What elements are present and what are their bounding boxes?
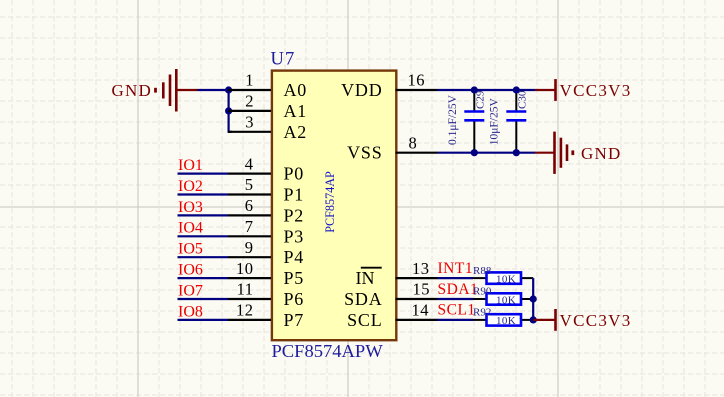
resistor R92 — [473, 314, 533, 325]
svg-text:15: 15 — [413, 280, 431, 299]
pin 3 (A2) — [228, 113, 307, 142]
svg-text:R88: R88 — [473, 265, 492, 277]
power port VCC3V3 top — [535, 79, 556, 101]
svg-text:VCC3V3: VCC3V3 — [560, 311, 632, 330]
wire IO3 — [178, 214, 229, 216]
pin 2 (A1) — [228, 92, 307, 121]
svg-text:GND: GND — [112, 81, 152, 100]
svg-text:IO1: IO1 — [178, 157, 203, 174]
pin 11 (P6) — [228, 280, 304, 309]
ground symbol GND left — [156, 69, 198, 112]
svg-text:0.1μF/25V: 0.1μF/25V — [447, 94, 459, 145]
wire IO6 — [178, 277, 229, 279]
junction at pin 2 — [225, 107, 232, 114]
wire IO8 — [178, 319, 229, 321]
svg-text:16: 16 — [408, 71, 426, 90]
svg-text:PCF8574APW: PCF8574APW — [272, 341, 384, 361]
svg-text:10: 10 — [236, 259, 254, 278]
svg-text:13: 13 — [412, 259, 430, 278]
svg-text:SCL: SCL — [347, 310, 382, 330]
junction C29 bottom — [471, 149, 478, 156]
svg-text:10K: 10K — [496, 294, 516, 306]
svg-text:VDD: VDD — [341, 80, 382, 100]
svg-text:11: 11 — [237, 280, 254, 299]
svg-text:IO3: IO3 — [178, 199, 203, 216]
svg-text:1: 1 — [245, 71, 254, 90]
wire VSS to GND — [438, 152, 536, 154]
svg-text:10K: 10K — [496, 273, 516, 285]
pin 9 (P4) — [228, 238, 304, 267]
pin 6 (P2) — [228, 196, 304, 225]
svg-text:A0: A0 — [284, 80, 308, 100]
svg-text:10μF/25V: 10μF/25V — [489, 98, 501, 146]
pin 5 (P1) — [228, 175, 304, 204]
svg-text:8: 8 — [409, 133, 418, 152]
pin 15 (SDA) — [344, 280, 437, 309]
svg-text:P7: P7 — [284, 310, 305, 330]
svg-text:U7: U7 — [271, 50, 296, 70]
junction C29 top — [471, 86, 478, 93]
svg-text:R92: R92 — [473, 307, 491, 319]
svg-text:SCL1: SCL1 — [438, 302, 476, 319]
svg-text:10K: 10K — [496, 315, 516, 327]
wire SDA1 — [438, 298, 474, 300]
junction C30 bottom — [513, 149, 520, 156]
wire SCL1 — [438, 319, 474, 321]
svg-text:PCF8574AP: PCF8574AP — [323, 171, 337, 233]
svg-text:6: 6 — [245, 196, 254, 215]
svg-text:IO2: IO2 — [178, 178, 203, 195]
junction bus at SCL1 — [530, 316, 537, 323]
svg-text:3: 3 — [245, 113, 254, 132]
svg-text:VCC3V3: VCC3V3 — [560, 81, 632, 100]
wire GND to pin 1 — [198, 89, 233, 91]
wire IO4 — [178, 235, 229, 237]
junction at pin 1 — [225, 86, 232, 93]
svg-text:R90: R90 — [473, 286, 492, 298]
svg-text:IO7: IO7 — [178, 282, 203, 299]
svg-text:IO8: IO8 — [178, 303, 203, 320]
junction bus at SDA1 — [530, 295, 537, 302]
svg-text:P2: P2 — [284, 205, 305, 225]
svg-text:P0: P0 — [284, 164, 305, 184]
pin 7 (P3) — [228, 217, 304, 246]
svg-text:IO6: IO6 — [178, 262, 203, 279]
capacitor C30 — [506, 90, 526, 153]
pin 1 (A0) — [228, 71, 307, 100]
svg-text:14: 14 — [412, 301, 430, 320]
pin 8 (VSS) — [347, 133, 437, 162]
svg-text:4: 4 — [245, 154, 254, 173]
svg-text:A2: A2 — [284, 122, 308, 142]
wire stub pin 2 — [229, 110, 232, 112]
pin 4 (P0) — [228, 154, 304, 183]
svg-text:2: 2 — [245, 92, 254, 111]
svg-text:P3: P3 — [284, 226, 305, 246]
svg-text:9: 9 — [245, 238, 254, 257]
svg-text:7: 7 — [245, 217, 254, 236]
wire IO5 — [178, 256, 229, 258]
wire IO7 — [178, 298, 229, 300]
wire IO1 — [178, 173, 229, 175]
ground symbol GND right — [535, 132, 573, 174]
svg-text:P1: P1 — [284, 185, 305, 205]
svg-text:IO4: IO4 — [178, 220, 203, 237]
wire IO2 — [178, 193, 229, 195]
wire vertical to A1/A2 — [229, 90, 232, 132]
pin 16 (VDD) — [341, 71, 437, 100]
svg-text:P4: P4 — [284, 247, 305, 267]
power port VCC3V3 bottom — [533, 309, 555, 331]
wire resistor bus vertical — [532, 278, 534, 320]
svg-text:GND: GND — [581, 144, 621, 163]
pin 10 (P5) — [228, 259, 304, 288]
resistor R88 — [473, 272, 533, 283]
wire INT1 — [438, 277, 474, 279]
svg-text:A1: A1 — [284, 101, 308, 121]
capacitor C29 — [464, 90, 484, 153]
resistor R90 — [473, 293, 533, 304]
IC U7 body — [272, 71, 396, 341]
svg-text:5: 5 — [245, 175, 254, 194]
wire VDD to VCC3V3 — [438, 89, 536, 91]
svg-text:VSS: VSS — [347, 143, 382, 163]
pin 14 (SCL) — [347, 301, 437, 330]
svg-text:IN: IN — [356, 268, 375, 288]
svg-text:SDA: SDA — [344, 289, 382, 309]
junction C30 top — [513, 86, 520, 93]
svg-text:INT1: INT1 — [438, 260, 474, 277]
svg-text:12: 12 — [236, 301, 254, 320]
pin 12 (P7) — [228, 301, 304, 330]
svg-text:P6: P6 — [284, 289, 305, 309]
svg-text:P5: P5 — [284, 268, 305, 288]
svg-text:IO5: IO5 — [178, 241, 203, 258]
pin 13 (IN) — [356, 259, 438, 288]
